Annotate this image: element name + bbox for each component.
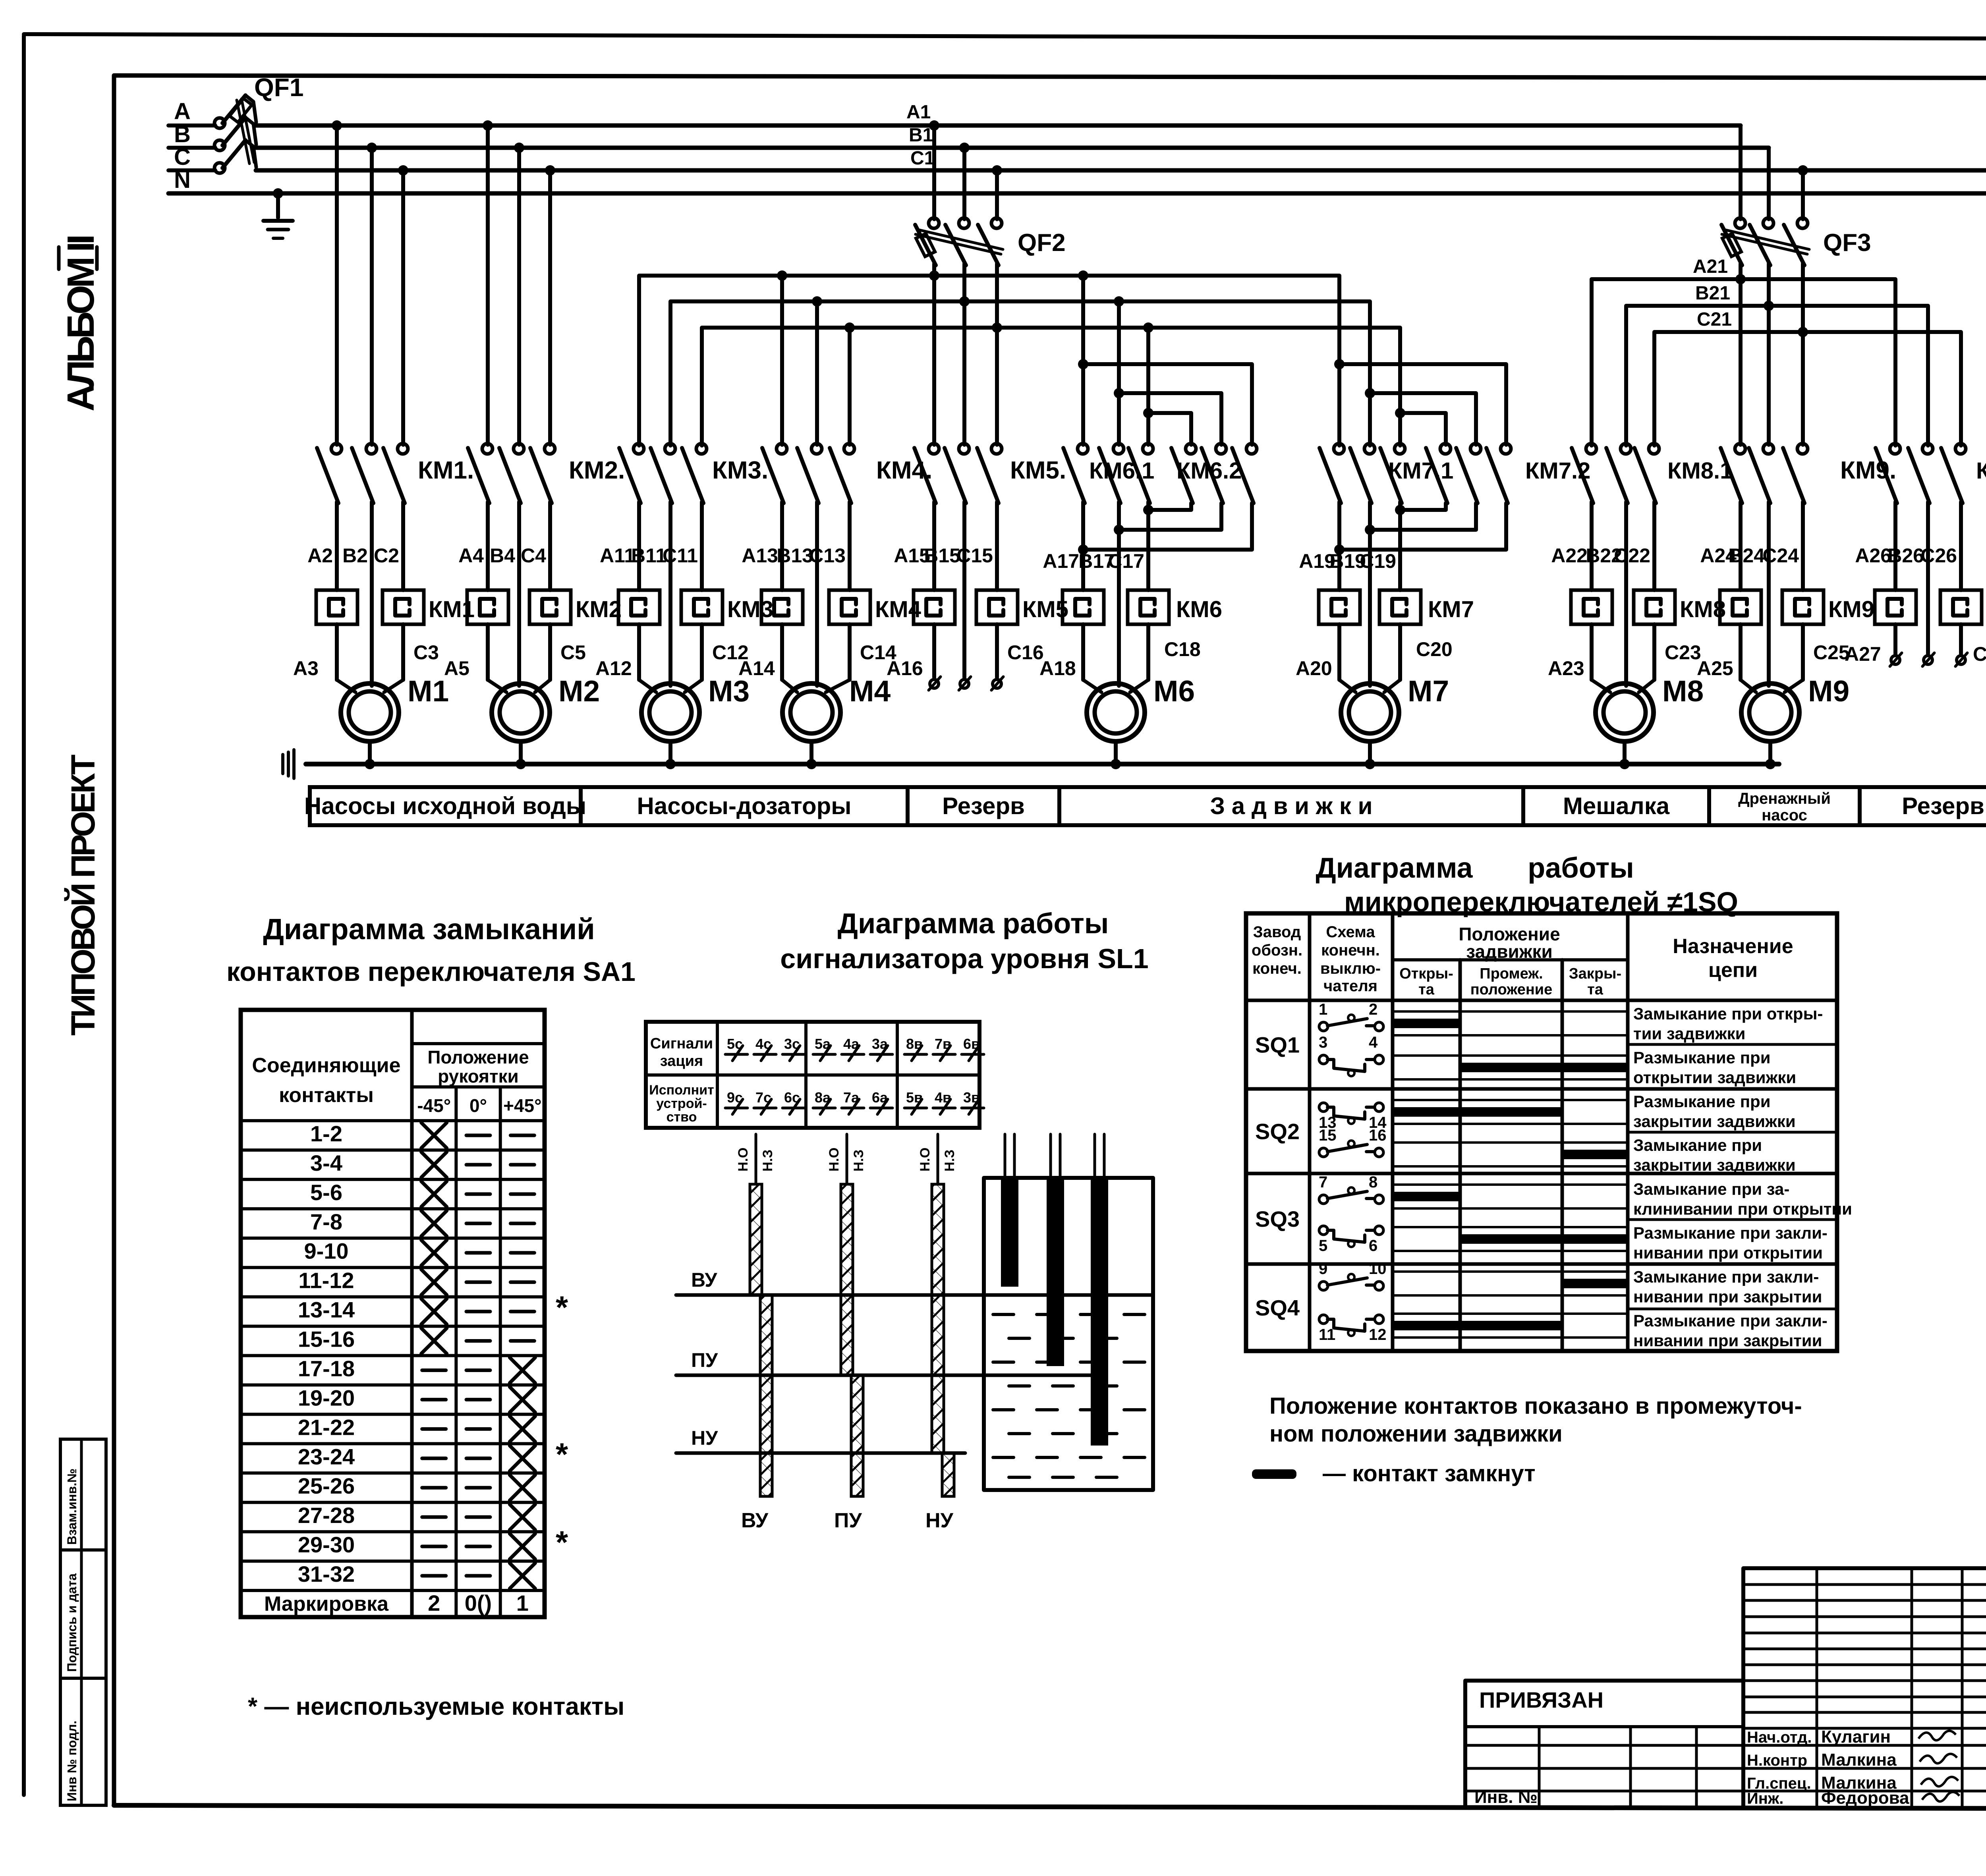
thermal relay KM2, labels A5 C5, motor feed xyxy=(486,502,490,590)
svg-text:В15: В15 xyxy=(924,544,960,567)
svg-text:9-10: 9-10 xyxy=(304,1239,348,1264)
motor M3 xyxy=(641,683,699,741)
svg-text:ном положении задвижки: ном положении задвижки xyxy=(1269,1421,1563,1447)
float switch bar xyxy=(755,1134,757,1184)
svg-text:С27: С27 xyxy=(1973,643,1986,665)
svg-text:ство: ство xyxy=(667,1110,697,1125)
thermal relay KM10 and open reserve ends A27 C27 xyxy=(1893,502,1897,590)
svg-text:клинивании при открытии: клинивании при открытии xyxy=(1633,1200,1852,1218)
svg-text:Откры-: Откры- xyxy=(1399,965,1453,982)
svg-text:Н.О: Н.О xyxy=(736,1148,751,1172)
motor M1 xyxy=(341,683,399,741)
svg-text:21-22: 21-22 xyxy=(298,1415,355,1440)
svg-text:Замыкание при закли-: Замыкание при закли- xyxy=(1633,1267,1819,1286)
motor M6 xyxy=(1087,683,1145,741)
margin cells bottom left xyxy=(60,1439,106,1805)
svg-text:НУ: НУ xyxy=(925,1509,954,1532)
svg-text:КМ3: КМ3 xyxy=(727,596,773,622)
contactor KM6.1 poles xyxy=(1081,276,1085,445)
svg-text:Завод: Завод xyxy=(1253,923,1301,941)
svg-text:QF2: QF2 xyxy=(1018,229,1066,257)
title block signature grid xyxy=(1743,1568,1986,1808)
svg-text:В1: В1 xyxy=(909,125,933,146)
svg-text:А12: А12 xyxy=(595,657,632,679)
level line НУ xyxy=(676,1451,965,1455)
label box Резерв 2 xyxy=(1860,787,1986,825)
circuit breaker QF1 xyxy=(168,124,215,127)
contactor KM5 poles xyxy=(932,276,936,445)
crossover loop wires KM6 xyxy=(1083,364,1252,445)
svg-text:А17: А17 xyxy=(1043,550,1079,572)
svg-text:В11: В11 xyxy=(631,544,667,567)
thermal relay KM7, labels A20 C20, motor feed xyxy=(1337,502,1341,590)
title block outline xyxy=(1465,1681,1743,1808)
svg-text:КМ6: КМ6 xyxy=(1176,596,1222,622)
svg-text:КМ2: КМ2 xyxy=(576,596,622,622)
svg-text:— контакт замкнут: — контакт замкнут xyxy=(1323,1461,1536,1486)
junction dots sub-bus xyxy=(777,270,787,281)
svg-text:Закры-: Закры- xyxy=(1569,965,1621,982)
SQ closed-contact bars xyxy=(1393,1019,1460,1028)
svg-text:С: С xyxy=(174,144,191,170)
svg-text:М1: М1 xyxy=(408,674,449,708)
svg-text:Размыкание при закли-: Размыкание при закли- xyxy=(1633,1311,1828,1330)
svg-text:Диаграмма замыканий: Диаграмма замыканий xyxy=(263,913,595,946)
contactor KM9 poles xyxy=(1739,279,1743,445)
svg-text:М6: М6 xyxy=(1153,674,1195,708)
svg-text:С5: С5 xyxy=(560,641,586,664)
svg-text:М7: М7 xyxy=(1408,674,1449,708)
svg-text:Замыкание при: Замыкание при xyxy=(1633,1136,1762,1154)
svg-text:Мешалка: Мешалка xyxy=(1563,793,1670,819)
svg-text:С18: С18 xyxy=(1164,638,1201,660)
junction dots right sub-bus xyxy=(1735,274,1746,284)
svg-text:Инв № подл.: Инв № подл. xyxy=(65,1721,79,1801)
contactor KM7.1 poles xyxy=(1337,443,1341,447)
svg-text:В: В xyxy=(174,122,191,147)
svg-text:Н.З: Н.З xyxy=(760,1150,775,1172)
svg-text:29-30: 29-30 xyxy=(298,1532,355,1557)
svg-text:15-16: 15-16 xyxy=(298,1327,355,1352)
svg-text:та: та xyxy=(1418,981,1435,998)
electrode bar xyxy=(1001,1178,1018,1287)
svg-text:А16: А16 xyxy=(887,657,923,679)
svg-text:контактов переключателя SA1: контактов переключателя SA1 xyxy=(226,957,636,987)
bus A wire xyxy=(256,124,1741,128)
svg-text:5: 5 xyxy=(1319,1237,1327,1255)
svg-text:А25: А25 xyxy=(1697,657,1733,679)
svg-text:5-6: 5-6 xyxy=(310,1180,342,1205)
svg-text:работы: работы xyxy=(1528,852,1634,884)
svg-text:С25: С25 xyxy=(1813,641,1850,664)
svg-text:та: та xyxy=(1587,981,1603,998)
ground symbol xyxy=(263,219,293,223)
svg-text:Исполнит: Исполнит xyxy=(649,1083,714,1098)
svg-text:Сигнали: Сигнали xyxy=(650,1035,713,1052)
svg-text:А22: А22 xyxy=(1551,544,1588,567)
ground bus earth mark xyxy=(281,755,284,774)
svg-text:11-12: 11-12 xyxy=(298,1268,354,1293)
svg-text:25-26: 25-26 xyxy=(298,1473,355,1498)
svg-text:Размыкание при закли-: Размыкание при закли- xyxy=(1633,1224,1828,1242)
svg-text:0(): 0() xyxy=(465,1590,492,1615)
svg-text:31-32: 31-32 xyxy=(298,1561,355,1586)
svg-text:Н.О: Н.О xyxy=(918,1148,933,1172)
svg-text:нивании при открытии: нивании при открытии xyxy=(1633,1243,1823,1262)
svg-text:А1: А1 xyxy=(906,102,931,123)
svg-text:2: 2 xyxy=(428,1590,440,1615)
svg-text:Насосы исходной воды: Насосы исходной воды xyxy=(304,793,586,819)
svg-text:Назначение: Назначение xyxy=(1673,935,1793,958)
label box Мешалка xyxy=(1523,787,1709,825)
svg-text:12: 12 xyxy=(1369,1326,1387,1343)
svg-text:3-4: 3-4 xyxy=(310,1150,342,1175)
crossover bottom join wires KM6 xyxy=(1148,503,1191,510)
thermal relay KM3, labels A12 C12, motor feed xyxy=(637,502,641,590)
svg-text:насос: насос xyxy=(1762,807,1807,824)
svg-text:А11: А11 xyxy=(600,544,635,567)
svg-text:нивании при закрытии: нивании при закрытии xyxy=(1633,1287,1822,1306)
contactor KM6.2 poles xyxy=(1186,444,1196,454)
svg-text:А23: А23 xyxy=(1548,657,1584,679)
thermal relay KM1, labels A3 C3, motor feed xyxy=(335,502,339,590)
svg-text:КМ1.: КМ1. xyxy=(418,457,474,484)
sub-bus B21 wire xyxy=(1626,306,1928,446)
svg-text:15: 15 xyxy=(1319,1127,1337,1144)
svg-text:С1: С1 xyxy=(910,148,935,169)
motor M2 xyxy=(492,683,550,741)
svg-text:Н.З: Н.З xyxy=(942,1150,957,1172)
contactor KM8.1 poles xyxy=(1590,443,1594,447)
label box Задвижки xyxy=(1059,787,1523,825)
svg-text:А26: А26 xyxy=(1855,544,1891,567)
svg-text:10: 10 xyxy=(1369,1260,1387,1278)
svg-text:Размыкание при: Размыкание при xyxy=(1633,1092,1771,1111)
legend closed contact xyxy=(1252,1469,1296,1479)
bus C wire xyxy=(256,168,1986,173)
svg-text:1: 1 xyxy=(1319,1001,1327,1018)
svg-text:Кулагин: Кулагин xyxy=(1821,1727,1891,1747)
svg-text:С15: С15 xyxy=(956,544,993,567)
motor M9 xyxy=(1741,683,1799,741)
SQ timing thin rails xyxy=(1393,1010,1628,1013)
svg-text:КМ7.1: КМ7.1 xyxy=(1388,458,1453,484)
svg-text:открытии задвижки: открытии задвижки xyxy=(1633,1068,1796,1087)
svg-text:-45°: -45° xyxy=(417,1095,451,1116)
svg-text:С3: С3 xyxy=(413,641,439,664)
svg-text:КМ3.: КМ3. xyxy=(712,457,768,484)
sub-bus C11 wire xyxy=(702,328,1400,446)
svg-text:Промеж.: Промеж. xyxy=(1480,965,1543,982)
svg-text:чателя: чателя xyxy=(1323,977,1377,995)
table SL1 contact groups xyxy=(646,1022,979,1128)
table SA1 header xyxy=(410,1010,414,1617)
svg-text:7: 7 xyxy=(1319,1173,1327,1191)
svg-text:КМ9: КМ9 xyxy=(1828,596,1874,622)
contactor KM7.2 poles xyxy=(1440,444,1451,454)
svg-text:13-14: 13-14 xyxy=(298,1297,355,1322)
svg-text:А: А xyxy=(174,98,191,124)
svg-text:Размыкание при: Размыкание при xyxy=(1633,1048,1771,1067)
svg-text:А18: А18 xyxy=(1039,657,1076,679)
svg-text:закрытии задвижки: закрытии задвижки xyxy=(1633,1156,1796,1174)
svg-text:устрой-: устрой- xyxy=(656,1096,707,1111)
svg-text:выклю-: выклю- xyxy=(1320,960,1381,977)
float switch bar xyxy=(937,1134,939,1184)
svg-text:23-24: 23-24 xyxy=(298,1444,355,1469)
circuit breaker QF3 xyxy=(1801,170,1805,219)
svg-text:ТИПОВОЙ ПРОЕКТ: ТИПОВОЙ ПРОЕКТ xyxy=(64,755,102,1036)
svg-text:М9: М9 xyxy=(1808,674,1849,708)
svg-text:положение: положение xyxy=(1470,981,1553,998)
thermal relay KM9, labels A25 C25, motor feed xyxy=(1739,502,1743,590)
svg-text:КМ5.: КМ5. xyxy=(1010,457,1066,484)
svg-text:С22: С22 xyxy=(1614,544,1650,567)
svg-text:Резерв: Резерв xyxy=(942,793,1025,819)
svg-text:SQ4: SQ4 xyxy=(1255,1295,1300,1320)
svg-text:*: * xyxy=(556,1525,568,1560)
table SQ group lines xyxy=(1246,1087,1837,1091)
svg-text:КМ2.: КМ2. xyxy=(569,457,625,484)
svg-text:9: 9 xyxy=(1319,1260,1327,1278)
svg-text:SQ1: SQ1 xyxy=(1255,1033,1300,1058)
svg-text:конеч.: конеч. xyxy=(1252,960,1302,977)
svg-text:нивании при закрытии: нивании при закрытии xyxy=(1633,1331,1822,1350)
svg-text:2: 2 xyxy=(1369,1001,1377,1018)
svg-text:конечн.: конечн. xyxy=(1321,942,1380,959)
svg-text:М4: М4 xyxy=(849,674,891,708)
svg-text:Положение: Положение xyxy=(427,1047,529,1067)
svg-text:В4: В4 xyxy=(490,544,515,567)
sub-bus A11 wire xyxy=(639,276,1339,446)
svg-text:закрытии задвижки: закрытии задвижки xyxy=(1633,1112,1796,1131)
svg-text:Диаграмма: Диаграмма xyxy=(1316,852,1473,884)
sub-bus C21 wire xyxy=(1654,332,1961,446)
svg-text:контакты: контакты xyxy=(279,1084,374,1107)
svg-text:С16: С16 xyxy=(1007,641,1044,664)
svg-text:НУ: НУ xyxy=(691,1427,718,1449)
svg-text:А21: А21 xyxy=(1693,256,1728,277)
svg-text:С21: С21 xyxy=(1697,309,1732,330)
svg-text:С17: С17 xyxy=(1108,550,1144,572)
svg-text:1: 1 xyxy=(516,1590,529,1615)
svg-text:Соединяющие: Соединяющие xyxy=(252,1054,400,1077)
motor M8 xyxy=(1596,683,1654,741)
motor M7 xyxy=(1341,683,1399,741)
svg-text:QF3: QF3 xyxy=(1823,229,1871,257)
svg-text:ПУ: ПУ xyxy=(834,1509,862,1532)
svg-text:Н.З: Н.З xyxy=(851,1150,866,1172)
contactor KM1 poles xyxy=(332,120,342,131)
svg-text:0°: 0° xyxy=(469,1095,487,1116)
water dashes in tank xyxy=(993,1313,1014,1316)
label box Дренажный насос xyxy=(1709,787,1860,825)
svg-text:*: * xyxy=(556,1290,568,1325)
svg-text:27-28: 27-28 xyxy=(298,1503,355,1528)
thermal relay KM6, labels A18 C18, motor feed xyxy=(1081,502,1085,590)
svg-text:QF1: QF1 xyxy=(254,73,303,102)
svg-text:Дренажный: Дренажный xyxy=(1738,790,1831,807)
svg-text:С4: С4 xyxy=(521,544,546,567)
svg-text:Инж.: Инж. xyxy=(1747,1790,1783,1807)
svg-text:С11: С11 xyxy=(663,544,698,567)
svg-text:* — неиспользуемые контакты: * — неиспользуемые контакты xyxy=(248,1693,624,1720)
sub-bus A21 wire xyxy=(1592,279,1895,446)
svg-text:А20: А20 xyxy=(1296,657,1332,679)
level line ВУ xyxy=(676,1293,1153,1297)
label box Насосы-дозаторы xyxy=(581,787,908,825)
svg-text:КМ8.1: КМ8.1 xyxy=(1667,458,1733,484)
svg-text:С19: С19 xyxy=(1360,550,1396,572)
electrode bar xyxy=(1091,1178,1108,1446)
svg-text:Схема: Схема xyxy=(1326,923,1375,941)
table SA1 frame xyxy=(241,1010,545,1617)
electrode wires xyxy=(1004,1134,1007,1178)
contactor KM2 poles xyxy=(483,120,493,131)
svg-text:В21: В21 xyxy=(1695,283,1730,304)
ground tap on N xyxy=(276,193,280,218)
svg-text:Положение контактов показано: Положение контактов показано в промежуто… xyxy=(1269,1393,1802,1419)
table SQ frame xyxy=(1246,913,1837,1351)
float switch bar xyxy=(846,1134,848,1184)
svg-text:Насосы-дозаторы: Насосы-дозаторы xyxy=(637,793,852,819)
label box Насосы исходной воды xyxy=(310,787,581,825)
svg-text:Взам.инв.№: Взам.инв.№ xyxy=(65,1469,79,1545)
svg-text:Маркировка: Маркировка xyxy=(264,1592,389,1615)
svg-text:16: 16 xyxy=(1369,1127,1387,1144)
svg-text:Замыкание при откры-: Замыкание при откры- xyxy=(1633,1004,1823,1023)
svg-text:обозн.: обозн. xyxy=(1252,942,1302,959)
ground bus xyxy=(306,762,1779,766)
svg-text:4: 4 xyxy=(1369,1034,1378,1051)
motor M4 xyxy=(782,683,840,741)
table SQ назначение row lines xyxy=(1628,999,1837,1002)
svg-text:Нач.отд.: Нач.отд. xyxy=(1747,1729,1812,1746)
tank outline xyxy=(984,1178,1153,1490)
svg-text:Н.контр: Н.контр xyxy=(1747,1752,1807,1769)
svg-text:Малкина: Малкина xyxy=(1821,1750,1897,1770)
svg-text:тии задвижки: тии задвижки xyxy=(1633,1024,1745,1043)
svg-text:С20: С20 xyxy=(1416,638,1453,660)
svg-text:Диаграмма работы: Диаграмма работы xyxy=(838,908,1109,940)
svg-text:С23: С23 xyxy=(1665,641,1701,664)
svg-text:А4: А4 xyxy=(458,544,484,567)
svg-text:17-18: 17-18 xyxy=(298,1356,355,1381)
svg-text:зация: зация xyxy=(660,1053,703,1069)
sub-bus B11 wire xyxy=(670,301,1370,446)
svg-text:А14: А14 xyxy=(738,657,775,679)
svg-text:*: * xyxy=(556,1436,568,1472)
svg-text:SQ3: SQ3 xyxy=(1255,1206,1300,1231)
svg-text:С13: С13 xyxy=(809,544,846,567)
svg-text:7-8: 7-8 xyxy=(310,1209,342,1234)
label box Резерв 1 xyxy=(908,787,1059,825)
svg-text:6: 6 xyxy=(1369,1237,1377,1255)
svg-text:В2: В2 xyxy=(342,544,368,567)
level line ПУ xyxy=(676,1374,1096,1377)
contactor KM3 poles xyxy=(634,444,644,454)
svg-text:В26: В26 xyxy=(1887,544,1924,567)
svg-text:3: 3 xyxy=(1319,1034,1327,1051)
svg-text:задвижки: задвижки xyxy=(1466,941,1553,962)
electrode bar xyxy=(1047,1178,1064,1366)
svg-text:Федорова: Федорова xyxy=(1821,1788,1909,1808)
svg-text:SQ2: SQ2 xyxy=(1255,1119,1300,1144)
contactor KM4 poles xyxy=(780,276,784,445)
svg-text:рукоятки: рукоятки xyxy=(438,1066,519,1087)
svg-text:КМ7: КМ7 xyxy=(1428,596,1474,622)
svg-text:В24: В24 xyxy=(1728,544,1765,567)
svg-text:Н.О: Н.О xyxy=(827,1148,842,1172)
crossover loop wires KM7 xyxy=(1339,364,1506,445)
svg-text:С2: С2 xyxy=(374,544,399,567)
svg-text:ВУ: ВУ xyxy=(741,1509,769,1532)
svg-text:ПУ: ПУ xyxy=(691,1349,718,1371)
sheet outer border xyxy=(22,36,26,1795)
svg-text:19-20: 19-20 xyxy=(298,1385,355,1410)
svg-text:А2: А2 xyxy=(307,544,333,567)
bus N wire xyxy=(168,191,1986,196)
circuit breaker QF2 xyxy=(929,120,939,131)
svg-text:КМ10.: КМ10. xyxy=(1976,458,1986,484)
thermal relay KM8, labels A23 C23, motor feed xyxy=(1590,502,1594,590)
svg-text:Замыкание при за-: Замыкание при за- xyxy=(1633,1180,1789,1199)
thermal relay KM4, labels A14 C14, motor feed xyxy=(780,502,784,590)
svg-text:ПРИВЯЗАН: ПРИВЯЗАН xyxy=(1479,1687,1603,1712)
svg-text:8: 8 xyxy=(1369,1173,1377,1191)
svg-text:М2: М2 xyxy=(558,674,600,708)
svg-text:А13: А13 xyxy=(742,544,778,567)
crossover bottom join wires KM7 xyxy=(1400,503,1446,510)
svg-text:А5: А5 xyxy=(444,657,469,679)
bus B wire xyxy=(256,146,1769,150)
svg-text:КМ6.1: КМ6.1 xyxy=(1089,458,1154,484)
table SA1 rows xyxy=(241,1119,545,1122)
svg-text:Резерв: Резерв xyxy=(1902,793,1984,819)
svg-text:З а д в и ж к и: З а д в и ж к и xyxy=(1210,793,1373,819)
svg-text:1-2: 1-2 xyxy=(310,1121,342,1146)
svg-text:А3: А3 xyxy=(293,657,319,679)
svg-text:сигнализатора уровня SL1: сигнализатора уровня SL1 xyxy=(780,943,1148,974)
svg-text:ВУ: ВУ xyxy=(691,1269,717,1291)
svg-text:КМ6.2: КМ6.2 xyxy=(1177,458,1242,484)
svg-text:цепи: цепи xyxy=(1708,959,1758,982)
svg-text:N: N xyxy=(174,167,191,193)
svg-text:А27: А27 xyxy=(1845,643,1881,665)
thermal relay KM5 and open reserve ends A16 C16 xyxy=(932,502,936,590)
svg-text:Подпись и дата: Подпись и дата xyxy=(65,1573,79,1672)
contactor KM10 poles xyxy=(1893,443,1897,447)
svg-text:Инв. №: Инв. № xyxy=(1474,1787,1538,1807)
svg-text:+45°: +45° xyxy=(503,1095,541,1116)
